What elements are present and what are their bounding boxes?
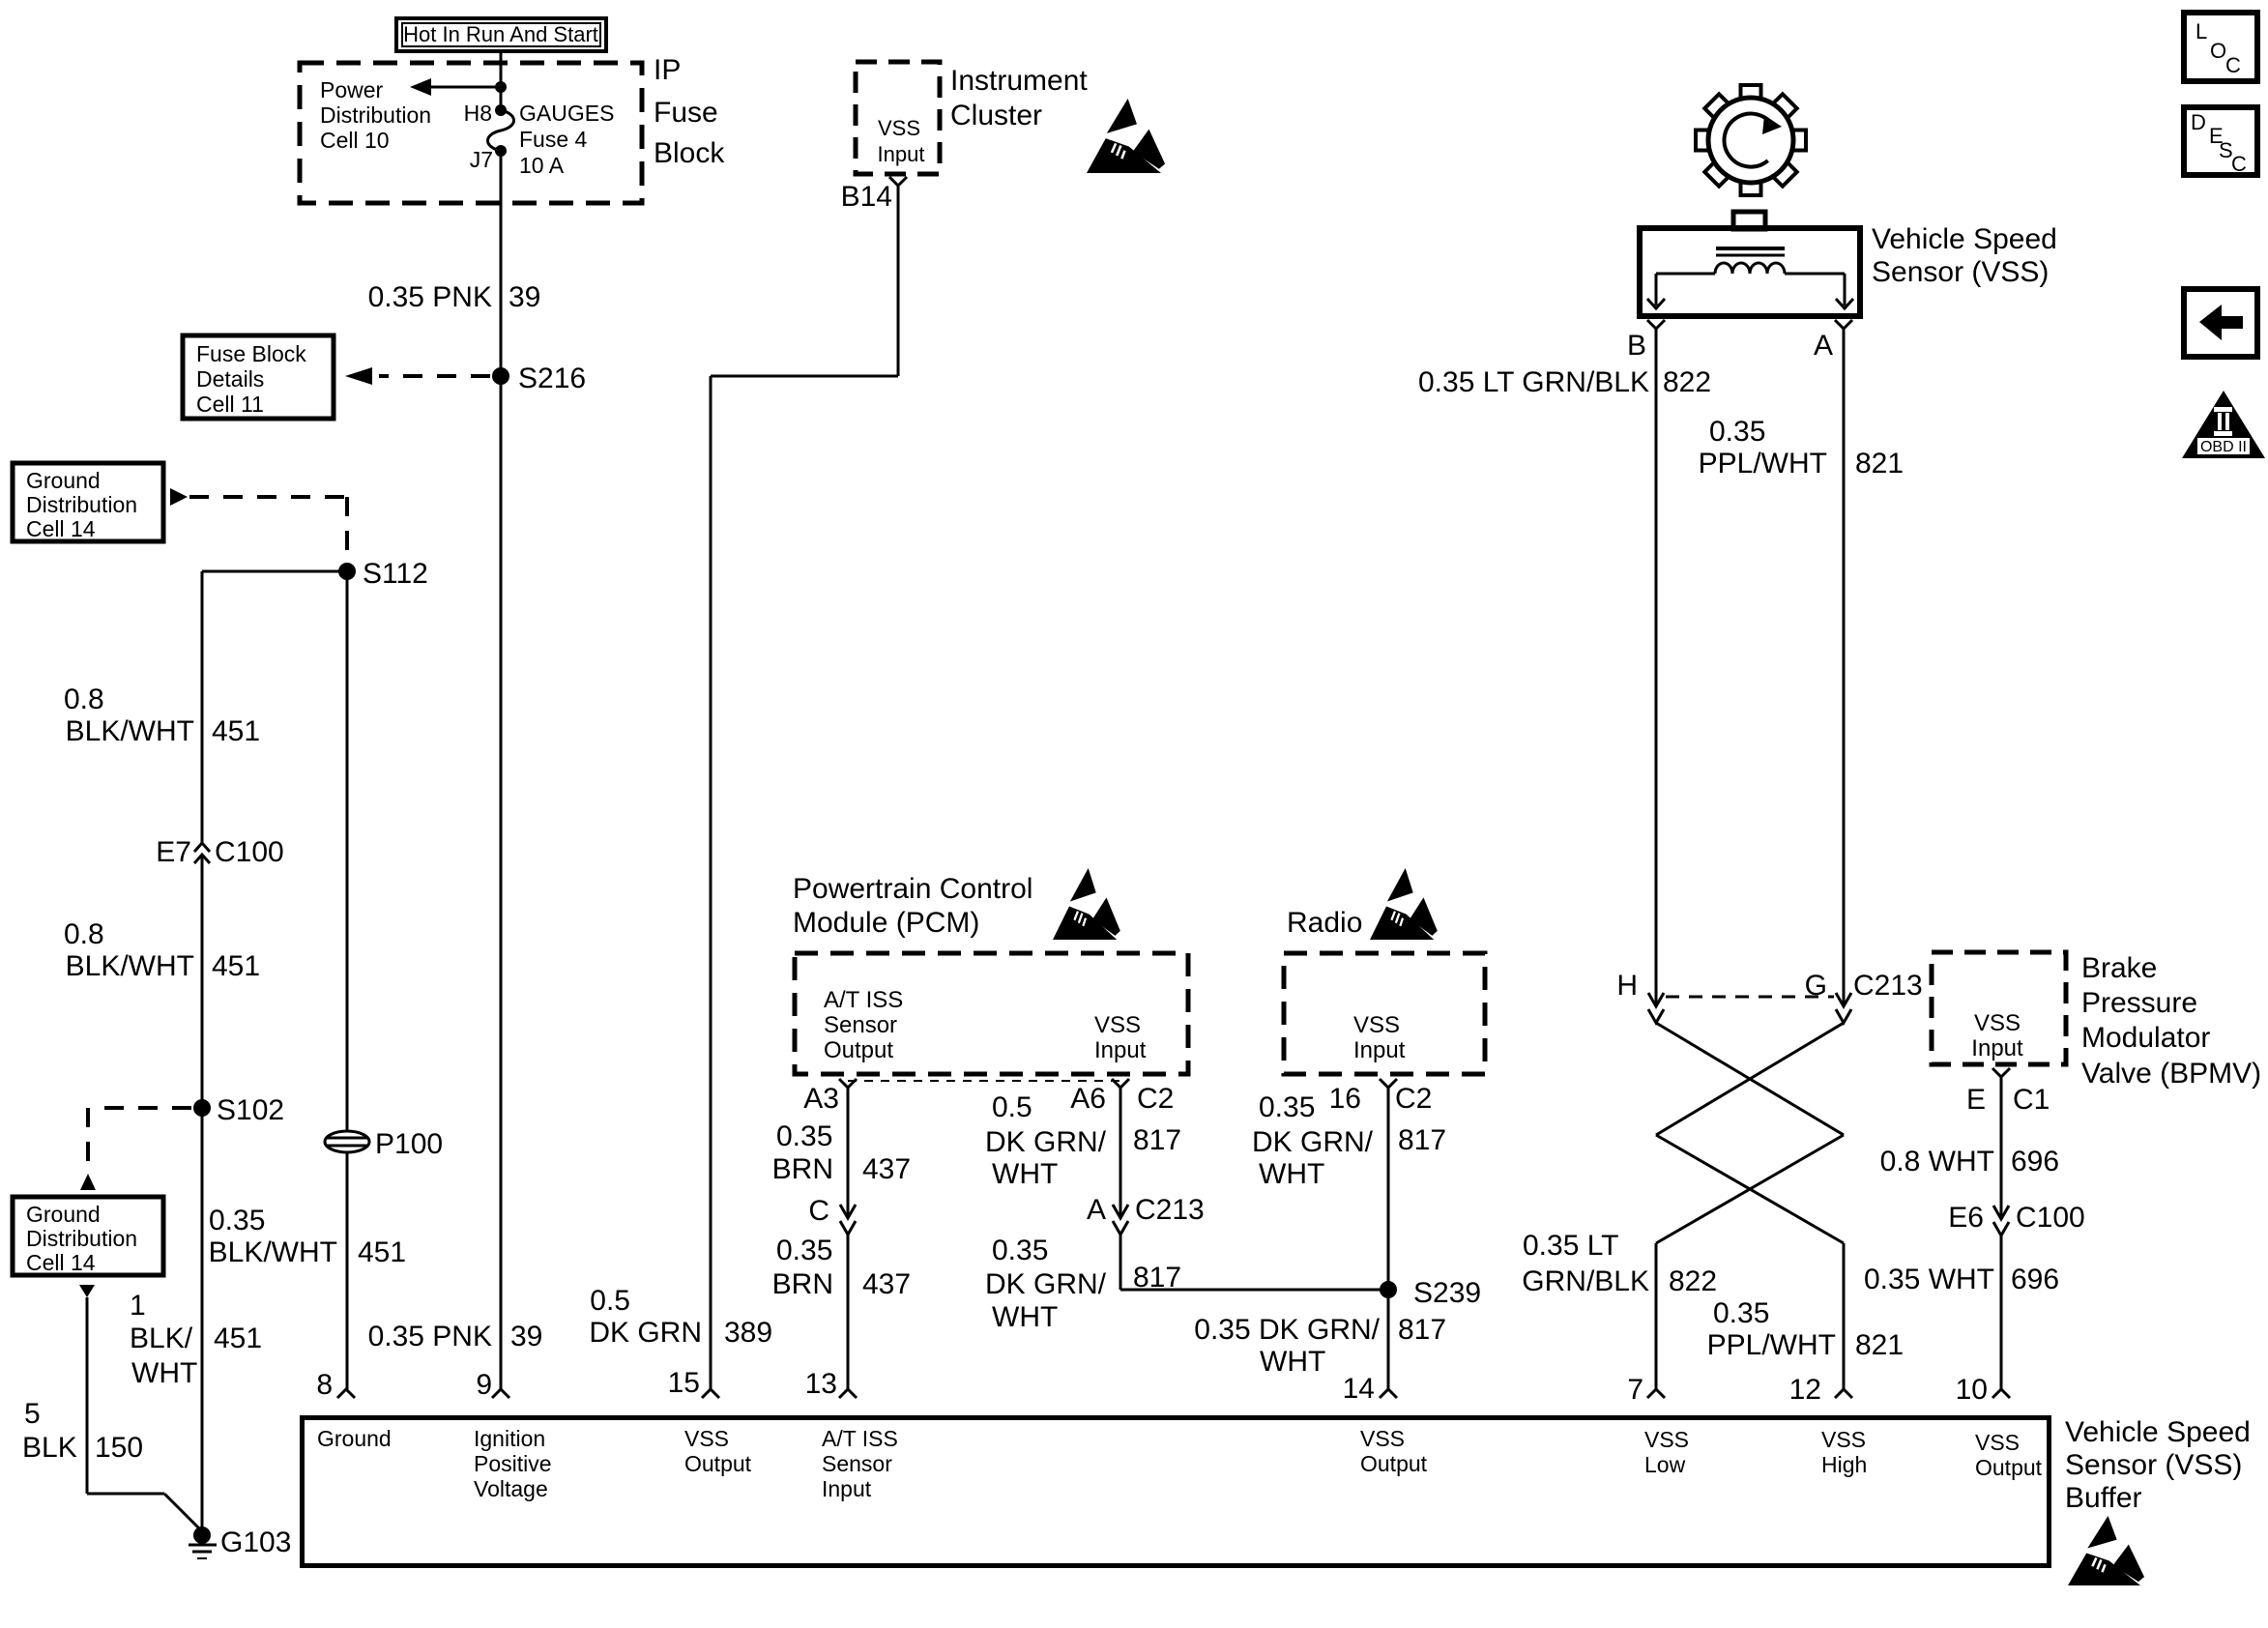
svg-text:0.35 PNK: 0.35 PNK <box>368 1321 492 1352</box>
svg-text:Cluster: Cluster <box>950 100 1042 131</box>
svg-text:C100: C100 <box>2016 1202 2085 1234</box>
svg-text:822: 822 <box>1663 366 1711 398</box>
svg-text:Sensor: Sensor <box>822 1451 892 1476</box>
svg-text:PPL/WHT: PPL/WHT <box>1707 1329 1836 1361</box>
svg-text:VSS: VSS <box>1360 1426 1405 1451</box>
svg-text:C100: C100 <box>215 836 284 868</box>
svg-text:VSS: VSS <box>878 116 920 140</box>
svg-text:10: 10 <box>1956 1374 1988 1406</box>
svg-text:BRN: BRN <box>772 1268 833 1300</box>
svg-text:15: 15 <box>668 1367 700 1399</box>
svg-text:VSS: VSS <box>1644 1427 1689 1452</box>
svg-text:PPL/WHT: PPL/WHT <box>1699 448 1827 480</box>
svg-text:Radio: Radio <box>1287 907 1362 939</box>
svg-text:E: E <box>1966 1084 1986 1116</box>
svg-text:VSS: VSS <box>1353 1012 1400 1038</box>
svg-text:J7: J7 <box>470 147 493 172</box>
svg-text:A/T ISS: A/T ISS <box>822 1426 898 1451</box>
svg-text:A: A <box>1814 330 1833 362</box>
svg-text:0.35 PNK: 0.35 PNK <box>368 281 492 313</box>
svg-text:39: 39 <box>509 281 540 313</box>
svg-text:Vehicle Speed: Vehicle Speed <box>1872 223 2057 255</box>
svg-text:0.35: 0.35 <box>1259 1091 1315 1123</box>
svg-text:696: 696 <box>2011 1264 2059 1295</box>
svg-text:Block: Block <box>654 137 725 169</box>
svg-text:Pressure: Pressure <box>2081 987 2197 1019</box>
svg-text:S112: S112 <box>363 558 428 590</box>
svg-text:0.35 DK GRN/: 0.35 DK GRN/ <box>1194 1314 1380 1346</box>
svg-text:Sensor: Sensor <box>824 1012 897 1038</box>
svg-text:0.35 WHT: 0.35 WHT <box>1864 1264 1994 1295</box>
svg-text:Cell 11: Cell 11 <box>196 392 264 417</box>
svg-text:WHT: WHT <box>992 1158 1058 1190</box>
svg-text:389: 389 <box>724 1317 772 1349</box>
svg-text:Voltage: Voltage <box>474 1476 548 1501</box>
svg-text:C213: C213 <box>1853 970 1923 1002</box>
svg-text:DK GRN/: DK GRN/ <box>985 1268 1107 1300</box>
svg-text:16: 16 <box>1329 1083 1361 1115</box>
svg-text:10 A: 10 A <box>519 153 565 178</box>
svg-text:Fuse 4: Fuse 4 <box>519 127 588 152</box>
svg-text:H8: H8 <box>464 101 492 126</box>
svg-text:9: 9 <box>476 1369 492 1401</box>
svg-text:Input: Input <box>878 142 925 166</box>
svg-text:BLK/WHT: BLK/WHT <box>66 950 194 982</box>
svg-text:Distribution: Distribution <box>26 1226 137 1251</box>
svg-text:Brake: Brake <box>2081 952 2157 984</box>
svg-text:0.5: 0.5 <box>590 1285 630 1317</box>
svg-text:VSS: VSS <box>1975 1430 2020 1455</box>
svg-text:0.8: 0.8 <box>64 918 104 950</box>
svg-text:Output: Output <box>824 1037 893 1063</box>
svg-text:0.35: 0.35 <box>1709 416 1765 448</box>
svg-text:1: 1 <box>130 1290 146 1322</box>
svg-text:Sensor (VSS): Sensor (VSS) <box>2065 1449 2242 1481</box>
svg-text:C: C <box>2231 152 2247 176</box>
svg-text:S102: S102 <box>217 1094 284 1126</box>
svg-text:451: 451 <box>358 1236 406 1268</box>
svg-text:822: 822 <box>1669 1265 1717 1297</box>
svg-text:Output: Output <box>1360 1451 1428 1476</box>
svg-text:WHT: WHT <box>131 1357 197 1389</box>
svg-text:C1: C1 <box>2013 1084 2050 1116</box>
svg-text:BRN: BRN <box>772 1153 833 1185</box>
svg-text:817: 817 <box>1133 1124 1181 1156</box>
svg-text:D: D <box>2191 110 2206 134</box>
svg-text:DK GRN/: DK GRN/ <box>1252 1126 1374 1158</box>
svg-text:Fuse: Fuse <box>654 97 718 129</box>
svg-text:VSS: VSS <box>1094 1012 1141 1038</box>
svg-text:0.35: 0.35 <box>1713 1297 1769 1329</box>
svg-text:G103: G103 <box>220 1526 291 1558</box>
svg-text:Power: Power <box>320 77 384 102</box>
svg-text:GRN/BLK: GRN/BLK <box>1522 1265 1649 1297</box>
svg-text:Output: Output <box>684 1451 752 1476</box>
svg-text:E7: E7 <box>156 836 191 868</box>
svg-text:Ground: Ground <box>26 1202 101 1227</box>
svg-text:A3: A3 <box>803 1083 839 1115</box>
svg-text:451: 451 <box>212 715 260 747</box>
svg-text:Input: Input <box>1971 1035 2023 1061</box>
svg-text:VSS: VSS <box>684 1426 729 1451</box>
svg-text:Sensor (VSS): Sensor (VSS) <box>1872 256 2049 288</box>
svg-text:0.35: 0.35 <box>992 1235 1048 1266</box>
svg-text:Fuse Block: Fuse Block <box>196 341 306 366</box>
svg-text:VSS: VSS <box>1974 1010 2021 1036</box>
svg-text:8: 8 <box>316 1369 333 1401</box>
svg-text:C2: C2 <box>1137 1083 1174 1115</box>
svg-text:0.35 LT GRN/BLK: 0.35 LT GRN/BLK <box>1418 366 1649 398</box>
svg-text:Vehicle Speed: Vehicle Speed <box>2065 1416 2251 1448</box>
svg-text:B: B <box>1627 330 1646 362</box>
svg-text:Output: Output <box>1975 1455 2043 1480</box>
svg-text:C: C <box>808 1195 829 1227</box>
svg-text:GAUGES: GAUGES <box>519 101 614 126</box>
svg-text:Instrument: Instrument <box>950 65 1088 97</box>
svg-text:BLK: BLK <box>22 1432 77 1464</box>
svg-text:O: O <box>2210 39 2226 63</box>
svg-text:696: 696 <box>2011 1146 2059 1177</box>
svg-text:821: 821 <box>1855 1329 1904 1361</box>
svg-text:S216: S216 <box>518 363 586 394</box>
svg-text:0.35: 0.35 <box>776 1120 832 1152</box>
svg-text:39: 39 <box>510 1321 542 1352</box>
svg-text:451: 451 <box>214 1323 262 1354</box>
svg-text:C2: C2 <box>1395 1083 1432 1115</box>
svg-text:Details: Details <box>196 366 264 392</box>
svg-text:Input: Input <box>1094 1037 1147 1063</box>
svg-text:L: L <box>2195 19 2207 44</box>
svg-text:Input: Input <box>822 1476 872 1501</box>
svg-text:DK GRN/: DK GRN/ <box>985 1126 1107 1158</box>
svg-text:Modulator: Modulator <box>2081 1022 2210 1054</box>
svg-text:IP: IP <box>654 54 681 86</box>
svg-text:BLK/WHT: BLK/WHT <box>66 715 194 747</box>
svg-text:Input: Input <box>1353 1037 1406 1063</box>
svg-text:Powertrain Control: Powertrain Control <box>793 873 1032 905</box>
svg-text:Cell 10: Cell 10 <box>320 128 390 153</box>
svg-text:817: 817 <box>1398 1314 1446 1346</box>
svg-text:E6: E6 <box>1948 1202 1984 1234</box>
svg-text:13: 13 <box>805 1368 837 1400</box>
svg-text:Distribution: Distribution <box>320 102 431 128</box>
svg-text:Distribution: Distribution <box>26 492 137 517</box>
svg-text:Ground: Ground <box>317 1426 392 1451</box>
svg-text:Ignition: Ignition <box>474 1426 545 1451</box>
svg-text:P100: P100 <box>375 1128 443 1160</box>
svg-text:821: 821 <box>1855 448 1904 480</box>
svg-text:0.35 LT: 0.35 LT <box>1523 1230 1619 1262</box>
svg-text:A/T ISS: A/T ISS <box>824 987 903 1013</box>
svg-text:0.35: 0.35 <box>776 1235 832 1266</box>
svg-text:BLK/WHT: BLK/WHT <box>209 1236 337 1268</box>
svg-text:WHT: WHT <box>992 1301 1058 1333</box>
svg-text:14: 14 <box>1343 1373 1375 1405</box>
svg-text:S239: S239 <box>1413 1277 1481 1309</box>
svg-text:A6: A6 <box>1070 1083 1106 1115</box>
svg-text:Cell 14: Cell 14 <box>26 1250 96 1275</box>
svg-text:Low: Low <box>1644 1452 1686 1477</box>
svg-text:437: 437 <box>862 1268 911 1300</box>
svg-text:Module (PCM): Module (PCM) <box>793 907 979 939</box>
svg-text:Ground: Ground <box>26 468 101 493</box>
svg-text:Cell 14: Cell 14 <box>26 516 96 541</box>
svg-text:817: 817 <box>1133 1262 1181 1294</box>
svg-text:B14: B14 <box>841 181 892 213</box>
svg-text:817: 817 <box>1398 1124 1446 1156</box>
svg-text:Hot In Run And Start: Hot In Run And Start <box>403 22 598 46</box>
svg-text:BLK/: BLK/ <box>130 1323 193 1354</box>
svg-text:A: A <box>1087 1194 1106 1226</box>
svg-text:VSS: VSS <box>1821 1427 1866 1452</box>
svg-text:WHT: WHT <box>1260 1346 1325 1378</box>
svg-text:High: High <box>1821 1452 1867 1477</box>
svg-text:H: H <box>1616 970 1638 1002</box>
svg-text:Valve (BPMV): Valve (BPMV) <box>2081 1058 2261 1090</box>
svg-text:150: 150 <box>95 1432 143 1464</box>
svg-text:0.8: 0.8 <box>64 683 104 715</box>
svg-text:7: 7 <box>1627 1374 1643 1406</box>
svg-text:451: 451 <box>212 950 260 982</box>
svg-text:12: 12 <box>1789 1374 1821 1406</box>
svg-text:DK GRN: DK GRN <box>589 1317 702 1349</box>
svg-text:0.8 WHT: 0.8 WHT <box>1880 1146 1994 1177</box>
svg-text:OBD II: OBD II <box>2200 439 2247 455</box>
svg-text:Positive: Positive <box>474 1451 552 1476</box>
svg-text:437: 437 <box>862 1153 911 1185</box>
svg-text:Buffer: Buffer <box>2065 1482 2142 1514</box>
svg-text:0.35: 0.35 <box>209 1205 265 1236</box>
svg-text:5: 5 <box>24 1398 41 1430</box>
svg-text:WHT: WHT <box>1259 1158 1324 1190</box>
svg-text:C: C <box>2225 53 2241 77</box>
svg-text:0.5: 0.5 <box>992 1091 1032 1123</box>
svg-text:C213: C213 <box>1135 1194 1205 1226</box>
